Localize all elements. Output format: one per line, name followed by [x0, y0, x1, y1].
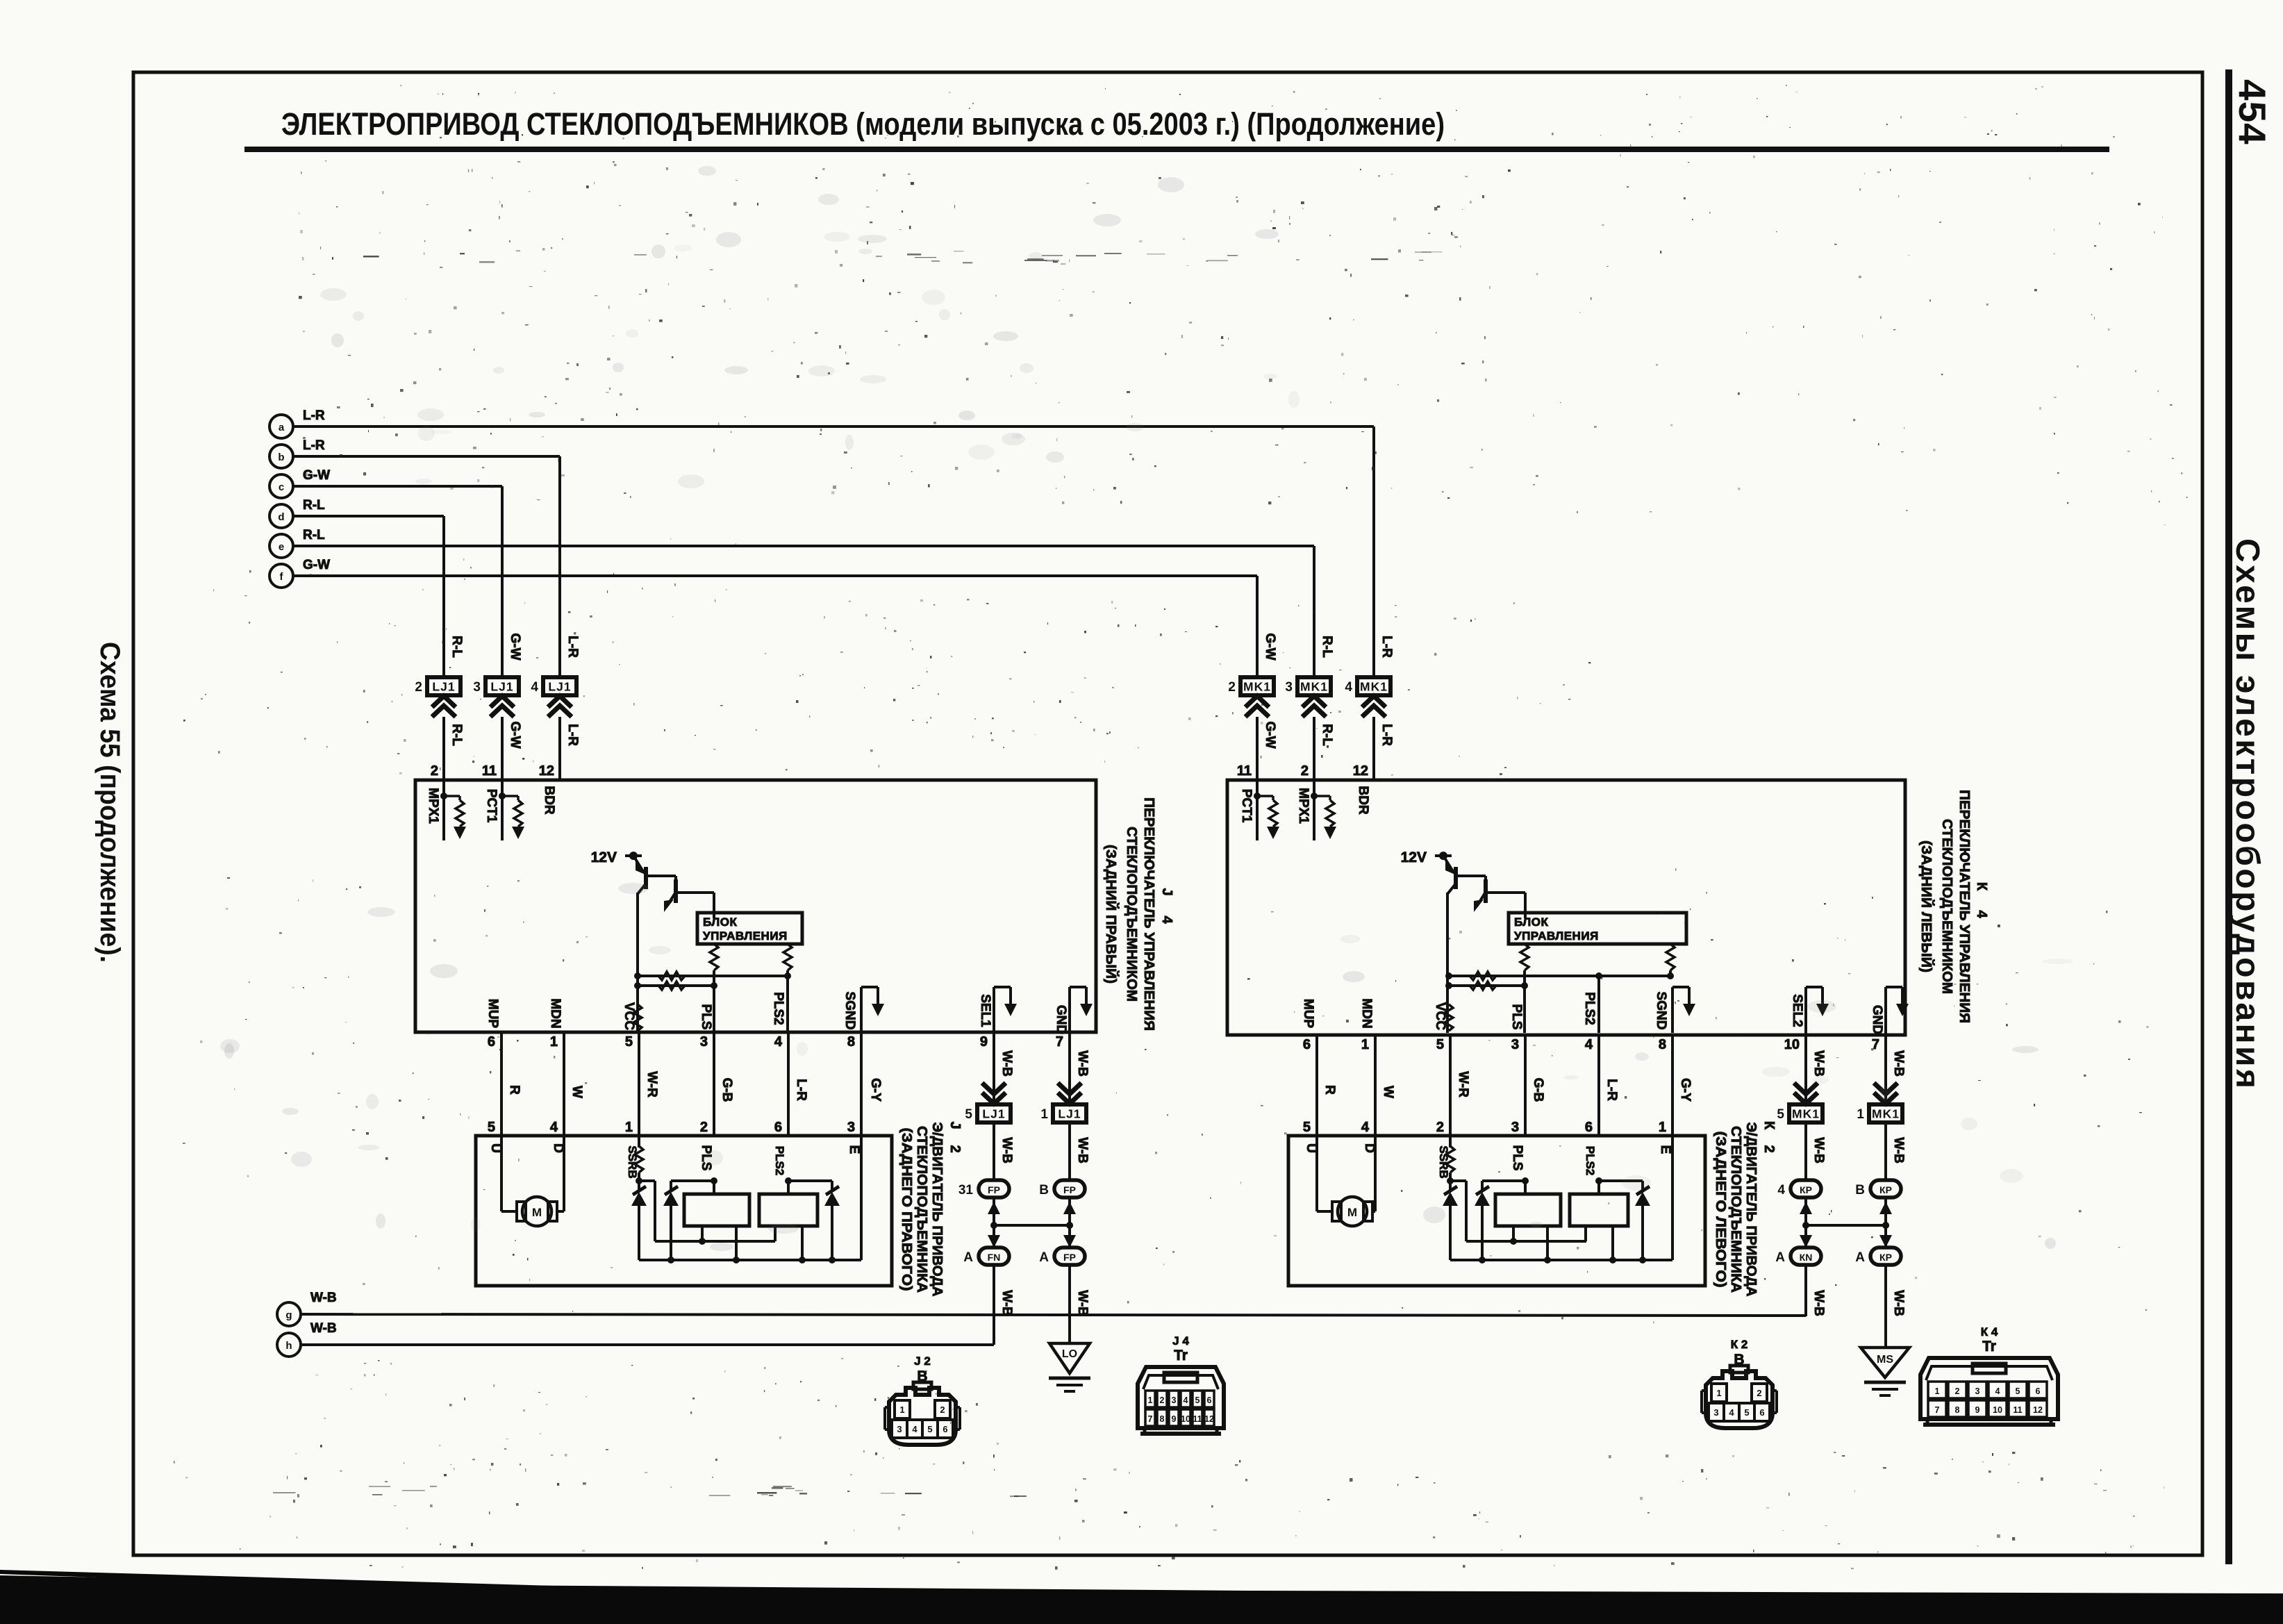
svg-text:4: 4	[1729, 1407, 1734, 1418]
svg-text:1: 1	[1659, 1120, 1666, 1135]
svg-text:U: U	[1304, 1143, 1318, 1153]
svg-text:W-B: W-B	[1891, 1050, 1906, 1077]
E line and bottom bus (right)	[1450, 1136, 1672, 1260]
svg-text:W-B: W-B	[1075, 1137, 1090, 1163]
E line and bottom bus (left)	[639, 1136, 861, 1260]
svg-text:G-W: G-W	[508, 721, 522, 748]
svg-text:e: e	[279, 541, 284, 553]
svg-text:3: 3	[1975, 1386, 1980, 1396]
svg-text:4: 4	[1345, 680, 1352, 695]
svg-text:КN: КN	[1800, 1252, 1813, 1263]
svg-text:W-B: W-B	[1811, 1050, 1826, 1077]
svg-text:5: 5	[1195, 1395, 1200, 1405]
svg-text:4: 4	[1159, 915, 1174, 924]
svg-text:FP: FP	[1063, 1252, 1076, 1263]
svg-text:1: 1	[1716, 1388, 1721, 1398]
pulse sensor IC 1 (left)	[684, 1145, 749, 1263]
svg-text:G-W: G-W	[508, 633, 522, 660]
svg-text:L-R: L-R	[1379, 724, 1394, 746]
svg-text:M: M	[532, 1206, 542, 1219]
svg-text:A: A	[1775, 1250, 1785, 1265]
svg-text:1: 1	[625, 1120, 633, 1135]
svg-text:R-L: R-L	[1320, 724, 1334, 746]
svg-text:12V: 12V	[1401, 850, 1427, 865]
svg-text:MDN: MDN	[548, 998, 563, 1028]
svg-text:11: 11	[1193, 1414, 1202, 1424]
wire e	[293, 546, 1314, 679]
svg-text:a: a	[279, 422, 285, 433]
block pin stub MPX1 (left)	[426, 780, 466, 840]
svg-text:E: E	[1658, 1145, 1672, 1154]
svg-text:6: 6	[1207, 1395, 1212, 1405]
svg-text:J: J	[1159, 888, 1174, 895]
svg-text:VCC: VCC	[1433, 1002, 1447, 1030]
svg-text:ПЕРЕКЛЮЧАТЕЛЬ УПРАВЛЕНИЯ: ПЕРЕКЛЮЧАТЕЛЬ УПРАВЛЕНИЯ	[1957, 790, 1973, 1023]
label: switch J4 (rear right)	[1103, 797, 1174, 1031]
svg-text:1: 1	[1148, 1395, 1153, 1405]
svg-text:УПРАВЛЕНИЯ: УПРАВЛЕНИЯ	[1514, 929, 1599, 943]
svg-text:R: R	[507, 1085, 522, 1095]
motor M (right)	[1304, 1136, 1377, 1226]
svg-text:L-R: L-R	[303, 438, 325, 453]
svg-text:ЭЛЕКТРОПРИВОД СТЕКЛОПОДЪЕМНИКО: ЭЛЕКТРОПРИВОД СТЕКЛОПОДЪЕМНИКОВ (модели …	[281, 106, 1445, 142]
connector face K4/Tr (right)	[1920, 1325, 2058, 1425]
svg-text:1: 1	[1361, 1037, 1369, 1052]
svg-text:6: 6	[774, 1120, 782, 1135]
svg-text:2: 2	[940, 1405, 945, 1415]
svg-text:3: 3	[700, 1034, 708, 1050]
svg-text:КР: КР	[1879, 1184, 1892, 1195]
page number 454	[2229, 79, 2274, 1088]
svg-text:2: 2	[415, 680, 422, 695]
svg-text:1: 1	[1857, 1107, 1864, 1122]
svg-text:(ЗАДНИЙ ЛЕВЫЙ): (ЗАДНИЙ ЛЕВЫЙ)	[1918, 840, 1935, 972]
svg-text:MDN: MDN	[1359, 998, 1374, 1028]
svg-text:MK1: MK1	[1872, 1107, 1900, 1121]
connector LJ1 pin 3 column	[473, 633, 522, 780]
svg-text:3: 3	[847, 1120, 855, 1135]
svg-text:6: 6	[1759, 1407, 1764, 1418]
svg-text:4: 4	[550, 1120, 558, 1135]
svg-text:1: 1	[1040, 1107, 1048, 1122]
svg-text:L-R: L-R	[1379, 636, 1394, 658]
svg-text:УПРАВЛЕНИЯ: УПРАВЛЕНИЯ	[703, 929, 788, 943]
SEL2 chain to connector MK1-5 and splice KP/KN (right)	[1775, 1033, 1826, 1316]
svg-text:12: 12	[539, 763, 554, 779]
svg-text:SEL1: SEL1	[978, 994, 993, 1027]
svg-text:9: 9	[1975, 1405, 1980, 1415]
svg-text:G-W: G-W	[1263, 633, 1277, 660]
svg-text:Схемы электрооборудования: Схемы электрооборудования	[2229, 538, 2266, 1088]
svg-text:BDR: BDR	[542, 786, 556, 814]
block pin stub MPX1 (right)	[1296, 780, 1336, 840]
wire b	[293, 456, 560, 679]
svg-text:5: 5	[1744, 1407, 1749, 1418]
svg-text:A: A	[963, 1250, 973, 1265]
svg-text:MS: MS	[1877, 1354, 1893, 1366]
svg-text:2: 2	[1301, 763, 1309, 779]
svg-text:2: 2	[1761, 1145, 1777, 1152]
svg-text:4: 4	[1585, 1037, 1593, 1052]
wire c	[293, 486, 502, 679]
label: motor J2 (rear right)	[899, 1121, 963, 1296]
svg-text:SGND: SGND	[842, 992, 857, 1030]
svg-text:W-B: W-B	[1891, 1290, 1906, 1316]
svg-text:КР: КР	[1879, 1252, 1892, 1263]
SEL1 chain to connector LJ1-5 and splice FP/FN (left)	[958, 1033, 1014, 1345]
svg-text:2: 2	[1436, 1120, 1444, 1135]
svg-text:GND: GND	[1870, 1005, 1884, 1034]
wire f	[293, 576, 1257, 679]
svg-text:6: 6	[1303, 1037, 1311, 1052]
svg-text:СТЕКЛОПОДЪЕМНИКОМ: СТЕКЛОПОДЪЕМНИКОМ	[1124, 827, 1140, 1002]
pulse sensor IC 2 (right)	[1570, 1146, 1650, 1263]
svg-text:PLS: PLS	[699, 1004, 713, 1030]
svg-text:B: B	[1855, 1183, 1865, 1198]
svg-text:К: К	[1761, 1121, 1777, 1130]
svg-text:Э/ДВИГАТЕЛЬ ПРИВОДА: Э/ДВИГАТЕЛЬ ПРИВОДА	[929, 1122, 945, 1297]
wire colour labels between blocks	[507, 1085, 522, 1095]
power window motor block J2 (rear right)	[476, 1136, 892, 1286]
svg-text:B: B	[1039, 1183, 1049, 1198]
ground point LO	[1049, 1343, 1090, 1391]
svg-text:4: 4	[1361, 1120, 1370, 1135]
GND chain to connector MK1-1 and splice KP/KP (right)	[1855, 1033, 1906, 1348]
bottom scan band	[0, 1575, 2283, 1624]
svg-text:b: b	[278, 451, 284, 463]
svg-text:W-B: W-B	[999, 1137, 1014, 1163]
svg-text:Э/ДВИГАТЕЛЬ ПРИВОДА: Э/ДВИГАТЕЛЬ ПРИВОДА	[1743, 1122, 1759, 1297]
SSRB sensor line (right)	[1437, 1136, 1586, 1263]
ground bus wire h	[301, 1343, 994, 1346]
svg-text:7: 7	[1148, 1414, 1153, 1424]
svg-text:БЛОК: БЛОК	[703, 915, 737, 929]
connector face K2/B (right)	[1702, 1338, 1777, 1428]
svg-text:12V: 12V	[591, 850, 617, 865]
svg-text:LJ1: LJ1	[982, 1107, 1005, 1121]
svg-text:4: 4	[774, 1034, 783, 1050]
svg-text:2: 2	[947, 1145, 963, 1152]
svg-text:5: 5	[625, 1034, 633, 1050]
right block internals (VCC PLS PLS2 SGND SEL2 GND)	[1303, 944, 1909, 1052]
svg-text:3: 3	[1285, 680, 1293, 695]
block pin MUP	[1301, 999, 1315, 1029]
svg-text:MK1: MK1	[1360, 680, 1388, 694]
svg-text:FN: FN	[988, 1252, 1001, 1263]
transistor pair + 12V (left block)	[591, 850, 714, 1033]
svg-text:W-B: W-B	[1075, 1290, 1090, 1316]
svg-text:LJ1: LJ1	[490, 680, 513, 694]
svg-text:W-B: W-B	[1891, 1137, 1906, 1163]
svg-text:4: 4	[1974, 910, 1989, 918]
svg-text:L-R: L-R	[565, 636, 580, 658]
svg-text:1: 1	[1935, 1386, 1940, 1396]
svg-text:W: W	[570, 1086, 584, 1098]
svg-text:W-R: W-R	[645, 1071, 659, 1097]
svg-text:g: g	[285, 1309, 292, 1321]
svg-text:PCT1: PCT1	[484, 789, 499, 823]
left block internals (VCC PLS PLS2 SGND SEL1 GND)	[488, 944, 1093, 1050]
svg-text:BDR: BDR	[1356, 786, 1370, 814]
block pin MDN	[548, 998, 563, 1028]
node g	[277, 1291, 337, 1326]
svg-text:4: 4	[1184, 1395, 1188, 1405]
svg-text:PLS: PLS	[1510, 1145, 1525, 1171]
svg-text:MUP: MUP	[485, 999, 500, 1029]
svg-text:R-L: R-L	[303, 528, 325, 542]
svg-text:5: 5	[1436, 1037, 1444, 1052]
svg-text:5: 5	[927, 1424, 932, 1434]
svg-text:PLS: PLS	[1509, 1004, 1524, 1030]
switch control unit block K4 (rear left)	[1227, 780, 1905, 1035]
connector MK1 pin 2 column	[1228, 633, 1277, 780]
svg-text:R-L: R-L	[303, 498, 325, 513]
svg-text:Tr: Tr	[1174, 1348, 1188, 1364]
svg-text:W: W	[1381, 1086, 1395, 1098]
svg-text:4: 4	[912, 1424, 918, 1434]
svg-text:11: 11	[1237, 763, 1252, 779]
control unit box (right)	[1509, 913, 1686, 944]
svg-text:f: f	[280, 571, 284, 583]
node a	[269, 408, 325, 438]
svg-text:PLS2: PLS2	[771, 992, 786, 1025]
svg-text:G-Y: G-Y	[1678, 1078, 1693, 1102]
svg-text:2: 2	[1757, 1388, 1761, 1398]
svg-text:К 2: К 2	[1731, 1338, 1748, 1351]
svg-text:6: 6	[2036, 1386, 2041, 1396]
svg-text:К: К	[1974, 882, 1989, 891]
svg-text:(ЗАДНИЙ ПРАВЫЙ): (ЗАДНИЙ ПРАВЫЙ)	[1103, 845, 1120, 984]
svg-text:SSRB: SSRB	[626, 1145, 639, 1178]
svg-text:7: 7	[1935, 1405, 1940, 1415]
svg-text:LJ1: LJ1	[548, 680, 571, 694]
svg-text:R: R	[1322, 1085, 1337, 1095]
svg-text:G-Y: G-Y	[868, 1078, 883, 1102]
switch control unit block J4 (rear right)	[415, 780, 1096, 1032]
pulse sensor IC 2 (left)	[759, 1146, 840, 1263]
svg-text:M: M	[1347, 1206, 1357, 1219]
svg-text:MUP: MUP	[1301, 999, 1315, 1029]
svg-text:R-L: R-L	[449, 636, 464, 658]
GND chain to connector LJ1-1 and splice FP/FP (left)	[1039, 1033, 1090, 1343]
left margin schema label	[94, 642, 125, 963]
svg-text:(ЗАДНЕГО ПРАВОГО): (ЗАДНЕГО ПРАВОГО)	[899, 1128, 915, 1291]
svg-text:D: D	[1362, 1143, 1377, 1153]
svg-text:10: 10	[1784, 1037, 1800, 1052]
svg-text:5: 5	[2016, 1386, 2020, 1396]
svg-text:5: 5	[1303, 1120, 1311, 1135]
svg-text:4: 4	[1777, 1183, 1785, 1198]
svg-text:SEL2: SEL2	[1790, 994, 1804, 1027]
svg-text:1: 1	[550, 1034, 558, 1050]
svg-text:MK1: MK1	[1243, 680, 1271, 694]
svg-text:SGND: SGND	[1654, 992, 1668, 1030]
connector LJ1 pin 4 column	[531, 636, 580, 780]
svg-text:LJ1: LJ1	[1058, 1107, 1081, 1121]
svg-text:G-W: G-W	[1263, 721, 1277, 748]
connector face J4/Tr (left)	[1138, 1334, 1224, 1434]
svg-text:SSRB: SSRB	[1437, 1145, 1450, 1178]
ground point MS	[1861, 1348, 1909, 1395]
sidebar separator line	[2225, 69, 2232, 1564]
svg-text:J: J	[947, 1121, 963, 1129]
svg-text:U: U	[488, 1143, 503, 1153]
svg-text:8: 8	[847, 1034, 855, 1050]
svg-text:R-L: R-L	[1320, 636, 1334, 658]
svg-text:10: 10	[1181, 1414, 1190, 1424]
connector face J2/B (left)	[885, 1354, 960, 1445]
svg-text:Схема 55 (продолжение).: Схема 55 (продолжение).	[94, 642, 125, 963]
svg-text:4: 4	[531, 680, 538, 695]
svg-text:G-W: G-W	[303, 558, 330, 572]
power window motor block K2 (rear left)	[1288, 1136, 1705, 1286]
svg-text:G-B: G-B	[1531, 1078, 1545, 1102]
svg-text:10: 10	[1993, 1405, 2002, 1415]
svg-text:PCT1: PCT1	[1239, 789, 1254, 823]
svg-text:W-B: W-B	[1075, 1050, 1090, 1077]
svg-text:3: 3	[473, 680, 481, 695]
wires switch block to motor block (right)	[1315, 1035, 1318, 1136]
node d	[269, 498, 325, 528]
svg-text:A: A	[1855, 1250, 1865, 1265]
svg-text:31: 31	[958, 1183, 974, 1198]
block pin MUP	[485, 999, 500, 1029]
node e	[269, 528, 325, 558]
svg-text:ПЕРЕКЛЮЧАТЕЛЬ УПРАВЛЕНИЯ: ПЕРЕКЛЮЧАТЕЛЬ УПРАВЛЕНИЯ	[1141, 797, 1157, 1031]
svg-text:11: 11	[482, 763, 497, 779]
svg-text:W-B: W-B	[1811, 1290, 1826, 1316]
svg-text:MK1: MK1	[1792, 1107, 1820, 1121]
title underline	[244, 147, 2109, 152]
svg-text:FP: FP	[988, 1184, 1000, 1195]
svg-text:A: A	[1039, 1250, 1049, 1265]
node b	[269, 438, 325, 468]
block pin stub BDR (left)	[542, 786, 556, 814]
svg-text:6: 6	[488, 1034, 495, 1050]
svg-text:d: d	[278, 511, 284, 523]
svg-text:PLS2: PLS2	[1584, 1146, 1597, 1176]
svg-text:J 2: J 2	[914, 1354, 931, 1368]
svg-text:5: 5	[1777, 1107, 1784, 1122]
connector LJ1 pin 2 column	[415, 636, 464, 780]
block pin stub PCT1 (left)	[484, 780, 524, 840]
svg-text:6: 6	[943, 1424, 947, 1434]
svg-text:VCC: VCC	[622, 1002, 636, 1030]
svg-text:(ЗАДНЕГО ЛЕВОГО): (ЗАДНЕГО ЛЕВОГО)	[1713, 1132, 1729, 1288]
svg-text:8: 8	[1160, 1414, 1165, 1424]
connector MK1 pin 4 column	[1345, 636, 1394, 780]
svg-text:9: 9	[980, 1034, 988, 1050]
svg-text:7: 7	[1056, 1034, 1063, 1050]
svg-text:3: 3	[1511, 1037, 1519, 1052]
svg-text:J 4: J 4	[1172, 1334, 1189, 1348]
svg-text:W-B: W-B	[310, 1291, 337, 1305]
svg-text:FP: FP	[1063, 1184, 1076, 1195]
label: switch K4 (rear left)	[1918, 790, 1989, 1023]
block pin stub BDR (right)	[1356, 786, 1370, 814]
svg-text:5: 5	[488, 1120, 495, 1135]
label: motor K2 (rear left)	[1713, 1121, 1777, 1297]
node c	[269, 468, 330, 498]
svg-text:3: 3	[1713, 1407, 1718, 1418]
svg-text:W-B: W-B	[1811, 1137, 1826, 1163]
svg-text:9: 9	[1172, 1414, 1177, 1424]
svg-text:D: D	[551, 1143, 565, 1153]
svg-text:СТЕКЛОПОДЪЕМНИКА: СТЕКЛОПОДЪЕМНИКА	[1728, 1126, 1744, 1293]
svg-text:2: 2	[431, 763, 438, 779]
svg-text:L-R: L-R	[794, 1079, 808, 1101]
title text	[281, 106, 1445, 142]
wire d	[293, 516, 444, 679]
svg-text:MPX1: MPX1	[1296, 788, 1311, 824]
svg-text:СТЕКЛОПОДЪЕМНИКА: СТЕКЛОПОДЪЕМНИКА	[914, 1126, 930, 1293]
svg-text:h: h	[285, 1340, 292, 1352]
svg-text:2: 2	[1955, 1386, 1960, 1396]
svg-text:4: 4	[1995, 1386, 2000, 1396]
svg-text:СТЕКЛОПОДЪЕМНИКОМ: СТЕКЛОПОДЪЕМНИКОМ	[1939, 819, 1955, 994]
svg-text:6: 6	[1585, 1120, 1593, 1135]
node f	[269, 558, 330, 588]
svg-text:3: 3	[1172, 1395, 1177, 1405]
svg-text:LO: LO	[1062, 1348, 1077, 1360]
transistor pair + 12V (right block)	[1401, 850, 1525, 1033]
splice link bar (left)	[994, 1222, 1073, 1229]
wire a	[293, 426, 1374, 679]
svg-text:L-R: L-R	[303, 408, 325, 423]
svg-text:MK1: MK1	[1300, 680, 1328, 694]
svg-text:W-B: W-B	[999, 1290, 1014, 1316]
svg-text:2: 2	[1160, 1395, 1165, 1405]
svg-text:Tr: Tr	[1982, 1339, 1996, 1354]
svg-text:3: 3	[1511, 1120, 1519, 1135]
svg-text:G-B: G-B	[720, 1078, 734, 1102]
svg-text:1: 1	[899, 1405, 904, 1415]
motor block pin numbers	[488, 1120, 1666, 1135]
svg-text:12: 12	[1204, 1414, 1214, 1424]
svg-text:11: 11	[2013, 1405, 2022, 1415]
svg-text:2: 2	[700, 1120, 708, 1135]
svg-text:W-B: W-B	[999, 1050, 1014, 1077]
svg-text:PLS2: PLS2	[773, 1146, 786, 1176]
svg-text:12: 12	[1353, 763, 1368, 779]
motor M (left)	[488, 1136, 565, 1226]
svg-text:8: 8	[1955, 1405, 1960, 1415]
splice link bar (right)	[1806, 1222, 1889, 1229]
svg-text:GND: GND	[1054, 1005, 1068, 1034]
pulse sensor IC 1 (right)	[1495, 1145, 1561, 1263]
block pin MDN	[1359, 998, 1374, 1028]
svg-text:PLS2: PLS2	[1582, 992, 1597, 1025]
svg-text:5: 5	[965, 1107, 972, 1122]
svg-text:2: 2	[1228, 680, 1236, 695]
wires switch block to motor block (left)	[500, 1033, 503, 1136]
node h	[277, 1321, 337, 1357]
svg-text:12: 12	[2033, 1405, 2043, 1415]
svg-text:c: c	[279, 481, 284, 493]
svg-text:LJ1: LJ1	[432, 680, 455, 694]
SSRB sensor line (left)	[626, 1136, 775, 1263]
svg-text:БЛОК: БЛОК	[1514, 915, 1548, 929]
svg-text:MPX1: MPX1	[426, 788, 440, 824]
svg-text:L-R: L-R	[1604, 1079, 1619, 1101]
svg-text:E: E	[847, 1145, 861, 1154]
svg-text:R-L: R-L	[449, 724, 464, 746]
svg-text:3: 3	[897, 1424, 902, 1434]
svg-text:L-R: L-R	[565, 724, 580, 746]
block pin stub PCT1 (right)	[1239, 780, 1279, 840]
svg-text:К 4: К 4	[1981, 1325, 1998, 1339]
control unit box (left)	[697, 913, 802, 944]
